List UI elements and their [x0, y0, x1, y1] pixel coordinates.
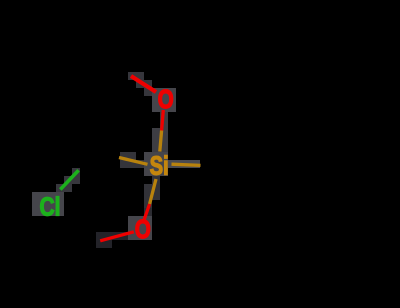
atom label O2 (bottom methoxy oxygen) — [135, 214, 151, 243]
bond CH3-O1, carbon half (near-black) — [111, 63, 131, 76]
bond CH2-Cl, Cl-colored half — [60, 170, 78, 189]
aromatic inner bond 2 — [356, 127, 370, 187]
bond O1-Si, Si-colored half — [160, 131, 162, 152]
bond Si-C1, carbon half (near-black) — [201, 164, 239, 167]
bond O1-Si, O-colored half — [162, 110, 164, 131]
bond Si-O2, O-colored half — [144, 204, 149, 220]
benzene ring C1-C6 (black carbon bonds, invisible on black background) — [238, 71, 382, 217]
bond Si-O2, Si-colored half — [150, 179, 156, 204]
svg-text:O: O — [158, 84, 174, 113]
bond Si-CH2(Cl), Si-colored half — [119, 158, 148, 165]
bond O2-CH3 (bottom methoxy), O-colored half — [100, 232, 134, 241]
bond Si-CH2, carbon half (near-black) — [93, 151, 119, 158]
atom label Si (central silicon) — [150, 151, 169, 180]
atom label O1 (top methoxy oxygen) — [158, 84, 174, 113]
bond CH3-O1 (top methoxy), O-colored half — [131, 76, 156, 92]
aromatic inner bond 1 — [265, 83, 324, 100]
svg-text:Si: Si — [150, 151, 169, 180]
JPEG-artifact gray blocks around bright strokes — [32, 72, 200, 248]
aromatic inner bond 3 — [250, 163, 295, 205]
bond CH2-Cl, carbon half (near-black) — [79, 151, 93, 170]
bond O2-CH3, carbon half (near-black) — [72, 241, 100, 249]
bond Si-C1(phenyl), Si-colored half — [172, 164, 201, 165]
svg-text:O: O — [135, 214, 151, 243]
atom label Cl (chlorine) — [40, 193, 61, 222]
svg-text:Cl: Cl — [40, 193, 61, 222]
